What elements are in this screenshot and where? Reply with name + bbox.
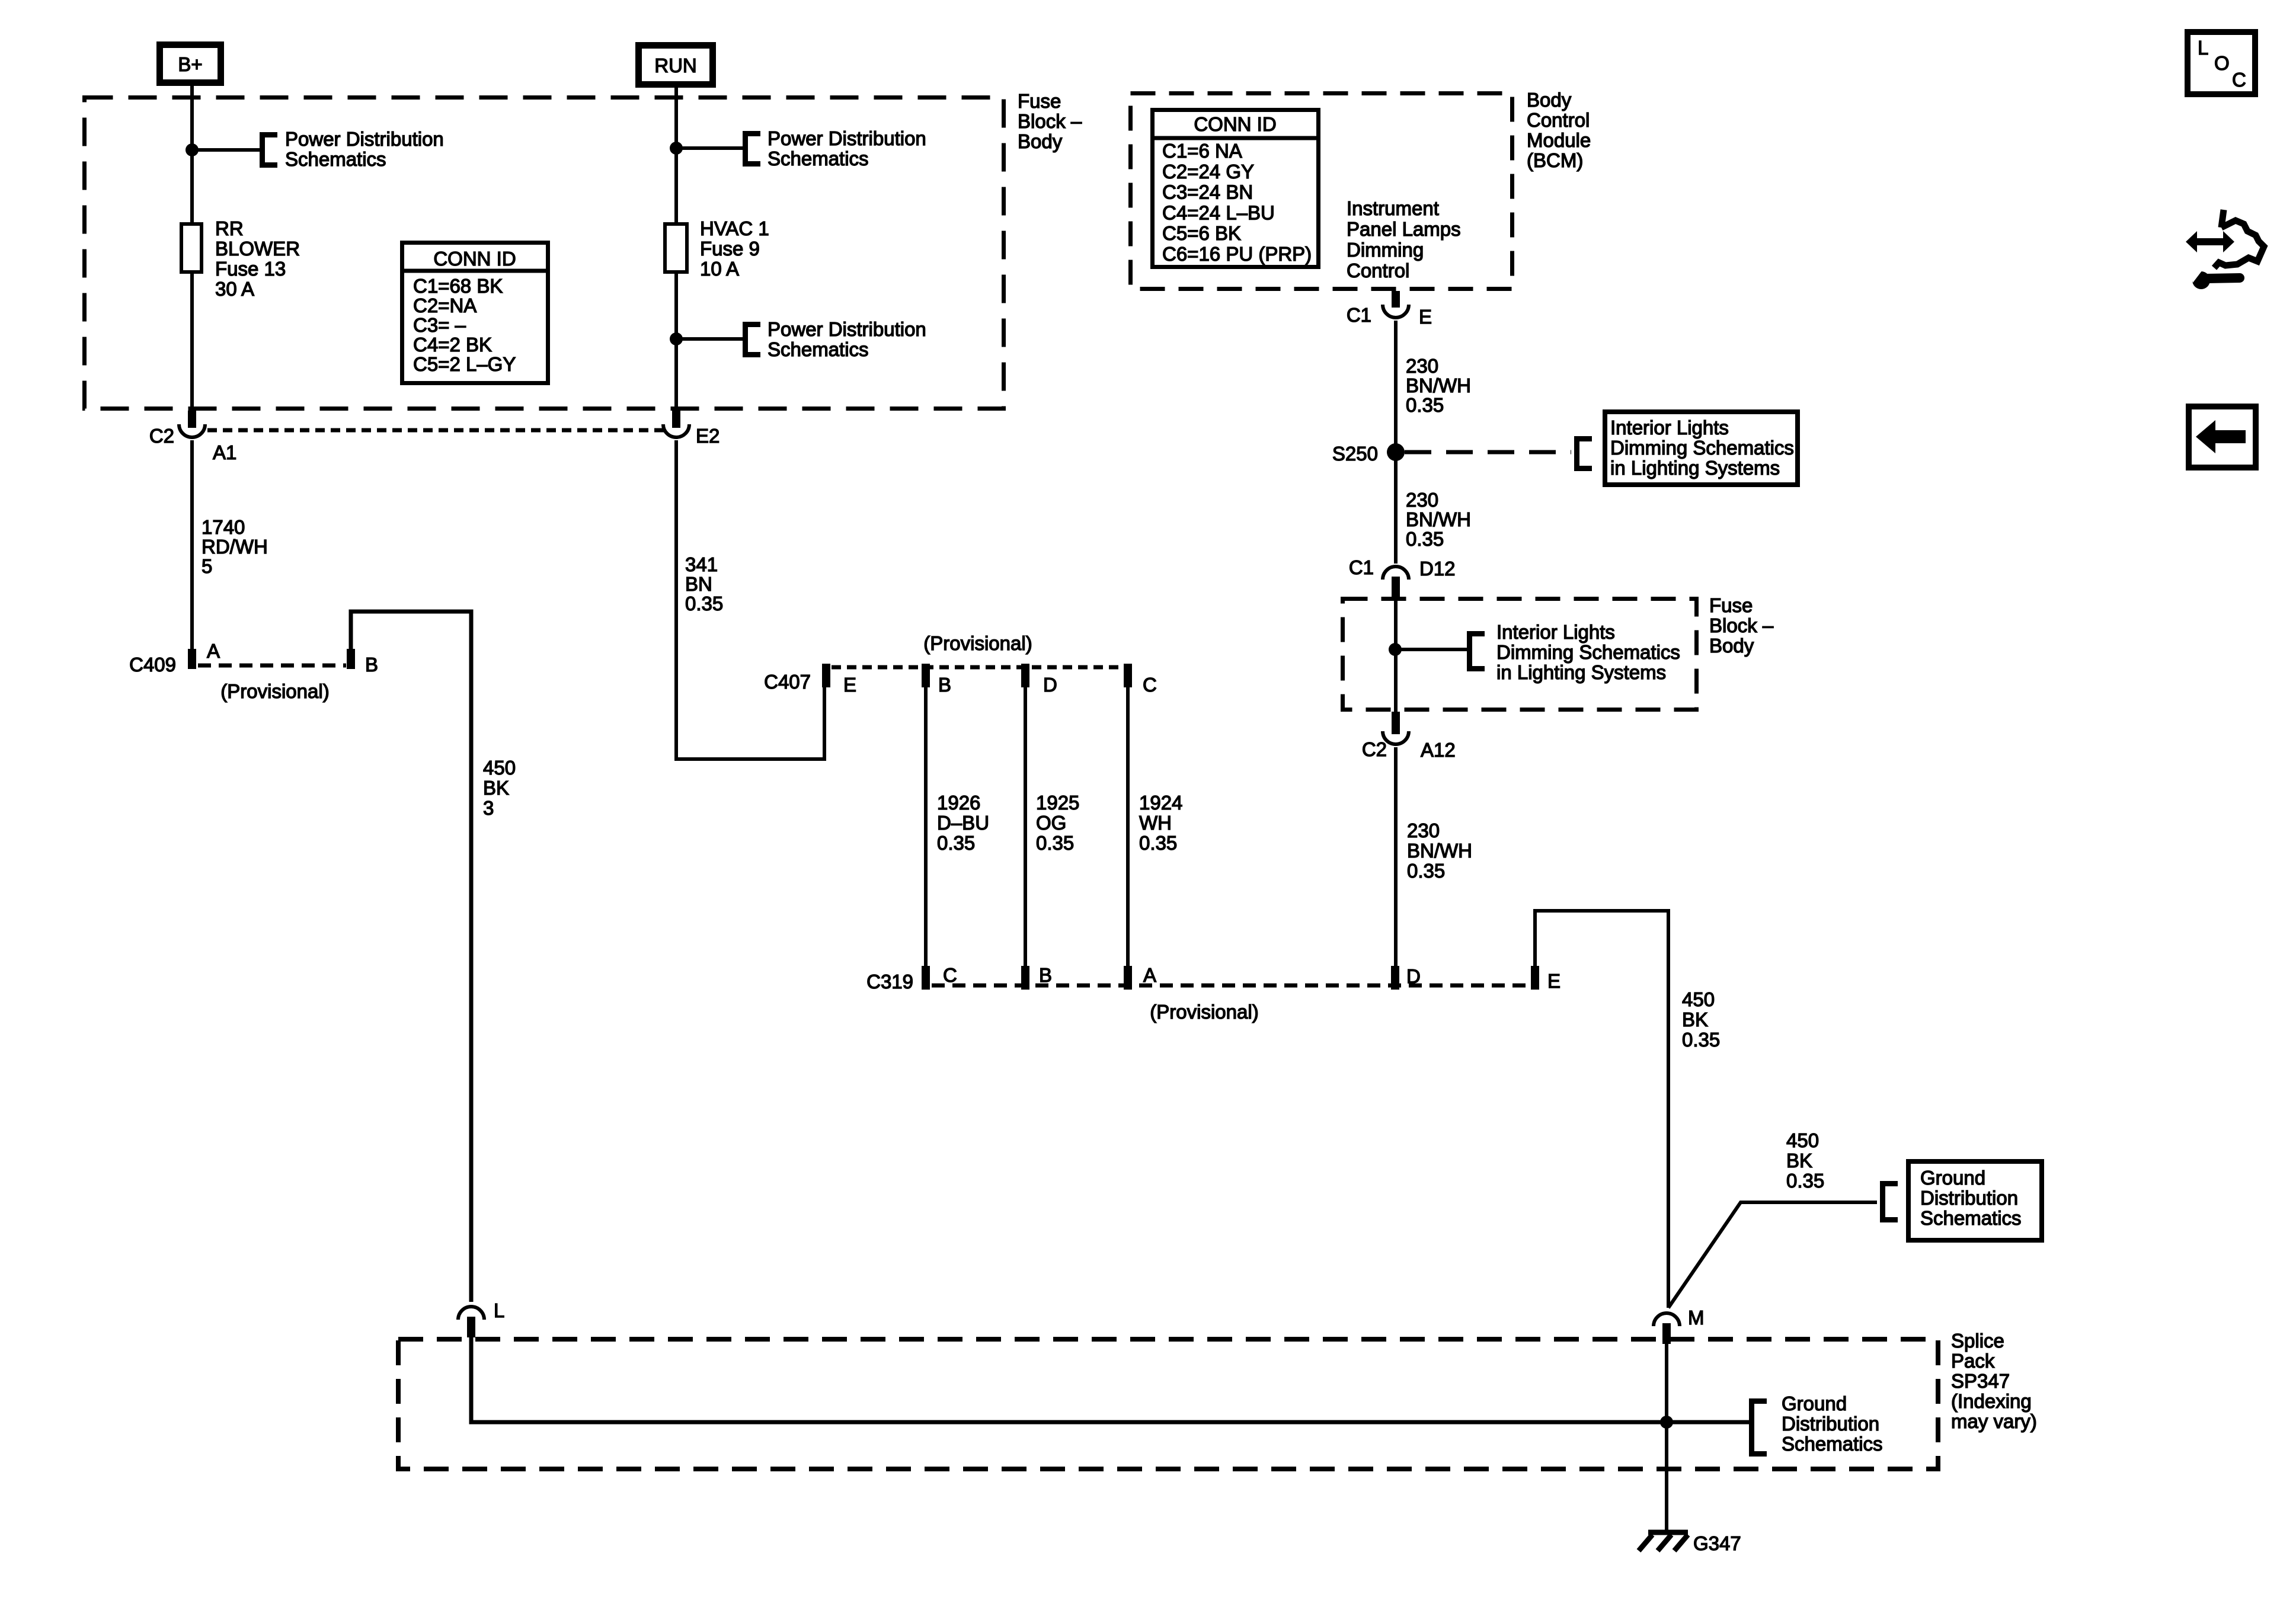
svg-text:in Lighting Systems: in Lighting Systems [1496, 661, 1666, 683]
svg-text:C3= –: C3= – [413, 314, 466, 336]
svg-text:Ground: Ground [1920, 1167, 1985, 1189]
svg-text:C4=24 L–BU: C4=24 L–BU [1162, 201, 1275, 223]
svg-text:Block –: Block – [1709, 614, 1774, 636]
svg-text:0.35: 0.35 [937, 832, 975, 854]
connector C319 pin D [1391, 966, 1399, 990]
svg-text:Schematics: Schematics [285, 148, 386, 170]
wire C2 to C409 pin A [190, 440, 194, 649]
svg-text:BK: BK [1786, 1150, 1812, 1172]
svg-text:C2: C2 [1362, 738, 1387, 760]
connector C2 pin A1 [188, 411, 196, 428]
bracket ground distribution (splice pack) [1752, 1401, 1767, 1454]
connector C2 pin A12 [1392, 712, 1400, 734]
svg-text:Schematics: Schematics [1920, 1207, 2022, 1229]
wire S250 to C1-D12 [1394, 452, 1398, 564]
svg-text:Body: Body [1018, 130, 1063, 152]
diagonal wire M to ground distribution bracket [1668, 1202, 1877, 1308]
svg-text:C1: C1 [1349, 556, 1374, 578]
svg-text:A: A [1143, 964, 1156, 986]
wire B+ down to C2 [190, 86, 194, 412]
svg-text:1926: 1926 [937, 792, 980, 814]
svg-text:Power Distribution: Power Distribution [285, 128, 444, 150]
wire through fuse block 2 [1394, 597, 1398, 712]
svg-text:E2: E2 [696, 425, 720, 447]
svg-text:0.35: 0.35 [1407, 860, 1445, 882]
svg-text:C1: C1 [1347, 304, 1371, 326]
svg-text:RD/WH: RD/WH [202, 536, 268, 558]
wire C2-A12 to C319 pin D [1394, 747, 1398, 966]
wire 1926 C407-B to C319-C [924, 687, 928, 966]
svg-text:3: 3 [483, 797, 494, 819]
terminal box RUN [639, 46, 713, 85]
connector C407 pin E [822, 664, 830, 687]
svg-text:0.35: 0.35 [1139, 832, 1177, 854]
svg-text:D–BU: D–BU [937, 812, 989, 834]
svg-text:BLOWER: BLOWER [215, 238, 300, 260]
splice S250 [1387, 443, 1405, 461]
svg-text:Fuse: Fuse [1018, 90, 1061, 112]
svg-text:230: 230 [1406, 355, 1438, 377]
connector C409 pin A [188, 649, 196, 669]
inline connector dashed line C409 [198, 664, 346, 668]
svg-text:(Provisional): (Provisional) [923, 632, 1032, 654]
bracket interior lights (S250) [1577, 439, 1593, 469]
svg-text:230: 230 [1406, 489, 1438, 511]
inline connector dashed line C407 [832, 665, 1124, 670]
svg-text:0.35: 0.35 [1036, 832, 1074, 854]
conn id table (BCM) [1153, 110, 1319, 267]
wire C1-E to S250 [1394, 321, 1398, 452]
svg-text:RR: RR [215, 217, 244, 239]
svg-text:Block –: Block – [1018, 110, 1082, 132]
svg-text:Body: Body [1527, 89, 1572, 111]
svg-text:A1: A1 [213, 441, 236, 463]
svg-text:Fuse: Fuse [1709, 594, 1753, 616]
svg-text:Control: Control [1347, 260, 1409, 281]
svg-text:0.35: 0.35 [685, 593, 723, 614]
svg-text:G347: G347 [1693, 1532, 1741, 1554]
svg-text:10 A: 10 A [700, 258, 739, 280]
svg-text:Schematics: Schematics [768, 338, 869, 360]
connector L [458, 1307, 484, 1320]
svg-text:L: L [2198, 37, 2208, 59]
svg-text:0.35: 0.35 [1786, 1170, 1824, 1192]
connector C407 pin D [1021, 664, 1029, 687]
svg-text:Instrument: Instrument [1347, 197, 1439, 219]
svg-text:B: B [365, 654, 378, 676]
svg-text:BN/WH: BN/WH [1406, 508, 1471, 530]
bracket interior lights (fuse block) [1470, 634, 1485, 669]
svg-text:Interior Lights: Interior Lights [1496, 621, 1615, 643]
connector C1 pin D12 [1383, 566, 1409, 580]
svg-text:Dimming Schematics: Dimming Schematics [1496, 641, 1680, 663]
svg-text:C409: C409 [129, 654, 176, 676]
wire to power distribution bracket (lower right) [676, 337, 743, 341]
connector C407 pin B [922, 664, 930, 687]
connector C409 pin B [347, 649, 355, 669]
svg-text:D: D [1406, 965, 1421, 987]
wire RUN down to E2 [674, 88, 678, 412]
svg-text:C2: C2 [149, 425, 174, 447]
svg-text:C5=2 L–GY: C5=2 L–GY [413, 353, 516, 375]
svg-text:BN/WH: BN/WH [1406, 375, 1471, 396]
svg-text:Distribution: Distribution [1782, 1413, 1879, 1435]
wire M to ground G347 [1665, 1344, 1668, 1532]
svg-text:1924: 1924 [1139, 792, 1182, 814]
svg-text:Schematics: Schematics [1782, 1433, 1883, 1455]
svg-text:BK: BK [483, 777, 509, 799]
connector C1 pin E (BCM) [1392, 291, 1400, 308]
svg-text:230: 230 [1407, 820, 1440, 841]
wire C409 pin B to splice pack L [351, 612, 471, 1302]
junction node on B+ wire [186, 143, 199, 156]
connector C319 pin E [1531, 966, 1539, 990]
junction node in fuse block 2 [1389, 643, 1402, 656]
inline connector dotted line C2-E2 [207, 428, 664, 433]
svg-text:1925: 1925 [1036, 792, 1079, 814]
svg-text:Schematics: Schematics [768, 148, 869, 169]
svg-text:Interior Lights: Interior Lights [1610, 417, 1729, 438]
svg-text:450: 450 [1682, 988, 1715, 1010]
svg-text:C2=24 GY: C2=24 GY [1162, 161, 1254, 183]
svg-text:C1=68 BK: C1=68 BK [413, 275, 503, 297]
junction node on RUN wire (lower) [670, 332, 683, 345]
svg-text:0.35: 0.35 [1406, 528, 1444, 550]
svg-text:Ground: Ground [1782, 1393, 1847, 1414]
svg-text:CONN ID: CONN ID [433, 248, 516, 270]
ground symbol G347 [1648, 1530, 1688, 1535]
svg-text:B: B [1039, 964, 1052, 986]
connector M [1654, 1313, 1680, 1326]
interior lights dimming schematics box (S250) [1605, 412, 1798, 485]
inline connector dashed line C319 [932, 984, 1531, 988]
svg-text:C4=2 BK: C4=2 BK [413, 334, 492, 356]
svg-text:D: D [1043, 674, 1057, 696]
bracket power distribution (upper right) [746, 134, 761, 164]
svg-text:O: O [2214, 52, 2230, 74]
junction node on ground bus [1660, 1416, 1673, 1429]
svg-text:0.35: 0.35 [1406, 394, 1444, 416]
bracket power distribution (lower right) [746, 325, 761, 355]
svg-text:BK: BK [1682, 1009, 1708, 1030]
svg-text:C3=24 BN: C3=24 BN [1162, 181, 1253, 203]
svg-text:CONN ID: CONN ID [1194, 113, 1276, 135]
svg-text:SP347: SP347 [1951, 1370, 2010, 1392]
svg-text:C6=16 PU (PRP): C6=16 PU (PRP) [1162, 243, 1312, 265]
svg-text:Panel Lamps: Panel Lamps [1347, 218, 1461, 240]
connector C319 pin A [1124, 966, 1132, 990]
svg-text:HVAC 1: HVAC 1 [700, 217, 769, 239]
svg-text:M: M [1688, 1307, 1705, 1329]
wire to power distribution bracket (left) [192, 148, 260, 152]
ground bus wire in splice pack [471, 1337, 1749, 1422]
svg-text:A12: A12 [1421, 739, 1456, 761]
svg-text:(BCM): (BCM) [1527, 149, 1583, 171]
svg-text:OG: OG [1036, 812, 1066, 834]
svg-text:Splice: Splice [1951, 1330, 2004, 1352]
svg-text:Fuse 13: Fuse 13 [215, 258, 286, 280]
fuse block - body dashed box (top) [85, 98, 1004, 409]
svg-text:BN: BN [685, 573, 712, 595]
fuse RR BLOWER Fuse 13 30 A [181, 224, 202, 272]
svg-text:C: C [943, 964, 957, 986]
svg-text:may vary): may vary) [1951, 1410, 2037, 1432]
svg-text:S250: S250 [1332, 443, 1378, 465]
svg-text:1740: 1740 [202, 516, 245, 538]
connector C319 pin C [922, 966, 930, 990]
wire C319-E to M [1535, 911, 1668, 1308]
svg-text:B+: B+ [178, 53, 202, 75]
svg-text:Pack: Pack [1951, 1350, 1995, 1372]
service icon wrench and arrows [2221, 210, 2224, 228]
wire to power distribution bracket (upper right) [676, 146, 743, 150]
terminal box B+ [160, 45, 221, 83]
fuse block - body dashed box (right) [1343, 599, 1697, 710]
dashed wire S250 to interior lights bracket [1405, 450, 1571, 454]
svg-text:E: E [1419, 306, 1432, 328]
svg-text:Body: Body [1709, 635, 1754, 657]
svg-text:Dimming: Dimming [1347, 239, 1424, 261]
svg-text:Dimming Schematics: Dimming Schematics [1610, 437, 1794, 459]
bracket ground distribution (right) [1883, 1184, 1898, 1220]
svg-text:Power Distribution: Power Distribution [768, 127, 926, 149]
wire 1924 C407-C to C319-A [1126, 687, 1130, 966]
bracket power distribution (left) [263, 135, 278, 165]
ground distribution schematics box [1908, 1161, 2042, 1240]
body control module dashed box [1131, 94, 1512, 289]
connector C319 pin B [1021, 966, 1029, 990]
loc reference box [2188, 32, 2255, 94]
svg-text:Power Distribution: Power Distribution [768, 318, 926, 340]
svg-text:C: C [2232, 69, 2246, 91]
splice pack SP347 dashed box [398, 1339, 1938, 1469]
connector C407 pin C [1124, 664, 1132, 687]
svg-text:Distribution: Distribution [1920, 1187, 2018, 1209]
back arrow box [2189, 406, 2256, 468]
svg-text:B: B [938, 674, 951, 696]
svg-text:D12: D12 [1419, 558, 1456, 580]
svg-text:Fuse 9: Fuse 9 [700, 238, 760, 260]
svg-text:450: 450 [1786, 1129, 1819, 1151]
svg-text:30 A: 30 A [215, 278, 254, 300]
svg-text:C5=6 BK: C5=6 BK [1162, 222, 1241, 244]
svg-text:RUN: RUN [654, 55, 697, 76]
svg-text:L: L [494, 1299, 504, 1321]
svg-text:C: C [1143, 674, 1157, 696]
junction node on RUN wire (upper) [670, 142, 683, 155]
svg-text:Control: Control [1527, 109, 1590, 131]
svg-text:E: E [1547, 970, 1560, 992]
wire to interior lights bracket 2 [1395, 648, 1467, 651]
wire 1925 C407-D to C319-B [1024, 687, 1027, 966]
conn id table (fuse block) [402, 243, 548, 383]
wire E2 to C407 pin E [676, 440, 824, 759]
svg-text:(Provisional): (Provisional) [1150, 1001, 1258, 1023]
svg-text:Module: Module [1527, 129, 1591, 151]
svg-text:0.35: 0.35 [1682, 1029, 1720, 1051]
svg-text:C319: C319 [866, 971, 913, 993]
svg-text:in Lighting Systems: in Lighting Systems [1610, 457, 1780, 479]
svg-text:450: 450 [483, 757, 516, 779]
svg-text:E: E [843, 674, 856, 696]
fuse HVAC 1 Fuse 9 10 A [665, 224, 687, 272]
svg-text:341: 341 [685, 553, 718, 575]
svg-text:BN/WH: BN/WH [1407, 840, 1472, 862]
svg-text:WH: WH [1139, 812, 1172, 834]
connector E2 pin [672, 411, 680, 428]
svg-text:C2=NA: C2=NA [413, 295, 477, 316]
svg-text:C1=6 NA: C1=6 NA [1162, 140, 1242, 162]
svg-text:(Provisional): (Provisional) [220, 680, 329, 702]
svg-text:A: A [207, 640, 220, 662]
svg-text:C407: C407 [764, 671, 811, 693]
svg-text:5: 5 [202, 555, 212, 577]
svg-text:(Indexing: (Indexing [1951, 1390, 2032, 1412]
